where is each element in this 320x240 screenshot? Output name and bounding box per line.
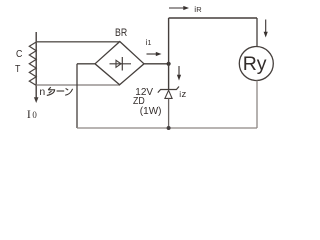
- current arrow into relay: [265, 20, 267, 35]
- zener diode ZD cathode bar with hooks: [158, 87, 179, 93]
- bridge rectifier BR diamond outline: [95, 42, 144, 85]
- diode symbol inside bridge: [110, 63, 132, 65]
- node: junction dot bottom: [167, 126, 171, 130]
- wire: right side down to relay: [256, 18, 258, 47]
- label T: [15, 65, 20, 75]
- zener branch wire upper: [168, 64, 170, 90]
- current I0 arrowhead at coil bottom: [34, 97, 39, 103]
- label 12V: [135, 88, 153, 98]
- ン: [66, 88, 69, 90]
- wire: relay bottom to bottom rail: [256, 81, 258, 129]
- label (1W): [140, 107, 162, 117]
- wire: DC- vertical drop to bottom rail: [76, 64, 78, 128]
- node: junction dot top: [167, 62, 171, 66]
- zener branch wire lower: [168, 98, 170, 128]
- wire: junction up to top rail: [168, 18, 170, 64]
- wire: bridge right vertex (DC+) to junction node: [144, 63, 169, 65]
- wire: bottom rail: [77, 127, 257, 129]
- wire: coil bottom terminal to bridge bottom vertex: [36, 84, 120, 86]
- relay coil circle Ry: [239, 47, 273, 81]
- label i1: [146, 39, 152, 47]
- current arrow i1: [147, 53, 159, 55]
- label ZD: [133, 97, 145, 107]
- label BR: [115, 28, 127, 39]
- wire: top rail to relay corner: [169, 17, 257, 19]
- label n of nターン: [39, 87, 45, 98]
- coil winding zigzag (CT secondary, n turns): [29, 42, 36, 85]
- label Ry: [243, 55, 267, 75]
- wire: coil top terminal to bridge top vertex: [36, 41, 120, 43]
- label iz: [179, 90, 186, 100]
- label C: [16, 50, 22, 60]
- label iR: [194, 5, 201, 14]
- label I0: [27, 109, 37, 121]
- current arrow iR (top): [169, 7, 186, 9]
- wire: bridge left vertex (DC-) to left drop: [77, 63, 95, 65]
- ー: [57, 90, 65, 92]
- current arrow iz: [178, 66, 180, 77]
- タ: [48, 87, 51, 90]
- label nターン katakana ターン strokes: [47, 87, 73, 95]
- wire: coil primary vertical conductor: [35, 32, 37, 100]
- zener diode ZD triangle: [165, 90, 172, 98]
